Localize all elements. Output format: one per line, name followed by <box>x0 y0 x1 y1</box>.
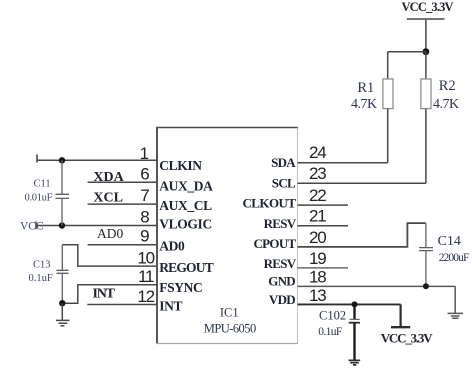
wire pin11 FSYNC with jog to ground node <box>62 285 157 303</box>
svg-text:GND: GND <box>268 273 295 288</box>
svg-text:AUX_DA: AUX_DA <box>159 179 213 194</box>
wire pin13 VDD net <box>298 303 401 305</box>
capacitor C102 top lead <box>353 304 355 319</box>
capacitor C14 plates <box>419 248 433 251</box>
capacitor C14 top lead <box>425 223 427 247</box>
wire ground lead right <box>454 286 456 313</box>
svg-text:CLKOUT: CLKOUT <box>242 195 296 210</box>
wire pin20 CPOUT with jog up to C14 <box>298 223 426 247</box>
svg-text:CLKIN: CLKIN <box>159 158 202 173</box>
svg-text:SCL: SCL <box>272 176 296 191</box>
svg-text:1: 1 <box>140 144 149 163</box>
svg-text:REGOUT: REGOUT <box>159 260 214 275</box>
svg-text:20: 20 <box>309 228 326 247</box>
svg-text:22: 22 <box>309 186 326 205</box>
svg-text:IC1: IC1 <box>220 306 239 320</box>
wire R2 top lead <box>425 52 427 79</box>
svg-text:13: 13 <box>309 286 326 305</box>
svg-text:24: 24 <box>309 143 326 162</box>
svg-text:19: 19 <box>309 249 326 268</box>
resistor R1 body <box>383 79 393 109</box>
svg-text:0.1uF: 0.1uF <box>318 326 342 338</box>
svg-text:VCC_3.3V: VCC_3.3V <box>381 331 434 346</box>
capacitor C14 bottom lead <box>425 251 427 286</box>
wire pin12 INT <box>87 304 157 306</box>
IC1 body bottom edge <box>157 343 298 345</box>
svg-text:9: 9 <box>140 226 149 245</box>
wire from top power bar down <box>425 20 427 52</box>
svg-text:7: 7 <box>140 186 149 205</box>
wire pin21 RESV stub <box>298 225 349 227</box>
svg-text:11: 11 <box>138 267 154 286</box>
node junction C14/GND <box>423 283 429 289</box>
terminal tick pin1 <box>36 155 38 163</box>
node junction VCC/C11 <box>59 222 65 228</box>
svg-text:10: 10 <box>137 248 154 267</box>
svg-text:XDA: XDA <box>93 170 124 185</box>
svg-text:R1: R1 <box>357 80 374 96</box>
svg-text:R2: R2 <box>439 78 456 94</box>
svg-text:INT: INT <box>159 298 182 313</box>
wire R1 bottom lead to SDA <box>387 109 389 163</box>
capacitor C102 plates <box>350 318 360 320</box>
svg-text:CPOUT: CPOUT <box>253 236 296 251</box>
IC1 body top edge <box>156 127 298 129</box>
svg-text:0.1uF: 0.1uF <box>29 273 53 284</box>
svg-text:23: 23 <box>309 164 326 183</box>
wire pin18 GND net <box>298 285 456 287</box>
svg-text:VLOGIC: VLOGIC <box>159 216 212 231</box>
wire R1 top lead <box>387 52 389 79</box>
wire pin22 CLKOUT stub <box>298 204 349 206</box>
svg-text:12: 12 <box>137 287 154 306</box>
svg-text:RESV: RESV <box>264 216 297 231</box>
capacitor C13 bottom lead <box>61 274 63 304</box>
wire pin23 SCL <box>298 182 426 184</box>
ground symbol right <box>448 313 464 318</box>
ground symbol left <box>56 320 70 325</box>
wire ground lead left <box>61 303 63 320</box>
wire pin8 VLOGIC / VCC net <box>36 225 157 227</box>
wire pin24 SDA <box>298 162 388 164</box>
svg-text:C11: C11 <box>34 179 51 190</box>
node junction C13/FSYNC/ground <box>59 300 65 306</box>
capacitor C13 plates <box>57 270 69 273</box>
svg-text:2200uF: 2200uF <box>439 252 469 264</box>
capacitor C13 top lead <box>61 245 63 270</box>
svg-text:MPU-6050: MPU-6050 <box>204 322 256 336</box>
svg-text:0.01uF: 0.01uF <box>25 193 53 204</box>
wire pin10 REGOUT with jog to C13 <box>62 245 157 266</box>
svg-text:INT: INT <box>93 287 116 302</box>
svg-text:SDA: SDA <box>271 155 296 170</box>
svg-text:C14: C14 <box>438 234 461 249</box>
capacitor C102 bottom lead <box>353 323 355 360</box>
wire pin7 XCL <box>88 203 157 205</box>
wire pin6 XDA <box>88 181 157 183</box>
svg-text:21: 21 <box>309 207 326 226</box>
terminal tick VCC <box>35 222 37 230</box>
svg-text:4.7K: 4.7K <box>351 97 377 112</box>
svg-text:FSYNC: FSYNC <box>159 280 202 295</box>
ground symbol center <box>349 360 361 365</box>
wire VDD down to power bar <box>400 304 402 326</box>
op-amp IC1 MPU-6050 body: left edge <box>156 128 158 344</box>
svg-text:AD0: AD0 <box>97 226 123 241</box>
node junction R1/R2 feed <box>423 48 430 55</box>
svg-text:18: 18 <box>309 268 326 287</box>
svg-text:XCL: XCL <box>93 190 123 205</box>
svg-text:6: 6 <box>140 164 149 183</box>
resistor R2 body <box>421 79 431 109</box>
power bar VCC_3.3V bottom <box>391 326 410 328</box>
svg-text:AUX_CL: AUX_CL <box>159 198 212 213</box>
svg-text:C13: C13 <box>33 260 51 271</box>
capacitor C11 top lead <box>61 160 63 194</box>
IC1 body right edge <box>297 128 299 344</box>
wire pin19 RESV stub <box>298 267 349 269</box>
svg-text:4.7K: 4.7K <box>433 97 459 112</box>
capacitor C11 bottom lead <box>61 199 63 226</box>
capacitor C11 plates <box>56 194 70 198</box>
node junction pin1/C11 <box>59 157 65 163</box>
wire pin9 AD0 <box>88 244 157 246</box>
svg-text:AD0: AD0 <box>159 238 185 253</box>
node junction VDD/C102 <box>352 301 358 307</box>
wire pin1 CLKIN <box>37 159 157 161</box>
svg-text:VCC_3.3V: VCC_3.3V <box>402 0 454 14</box>
svg-text:VCC: VCC <box>20 221 44 233</box>
svg-text:C102: C102 <box>319 309 346 323</box>
svg-text:8: 8 <box>140 208 149 227</box>
svg-text:VDD: VDD <box>269 292 295 307</box>
wire junction to R1 <box>388 51 426 53</box>
power bar VCC_3.3V top <box>407 18 445 20</box>
wire R2 bottom lead to SCL <box>425 109 427 184</box>
svg-text:RESV: RESV <box>264 256 297 271</box>
